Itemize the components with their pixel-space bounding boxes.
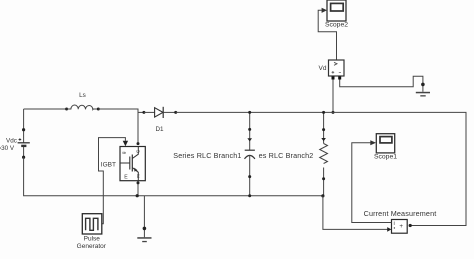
wire Vd plus terminal down to top rail bbox=[332, 80, 334, 113]
node diode anode port dot bbox=[142, 111, 145, 114]
node emitter bus junction bbox=[136, 194, 139, 197]
wire current measurement i output to Scope1 with arrow bbox=[352, 143, 392, 223]
ground G2 below bus bbox=[143, 196, 145, 238]
node Vd plus junction bbox=[332, 111, 335, 114]
svg-text:Scope1: Scope1 bbox=[374, 154, 397, 161]
svg-text:+: + bbox=[399, 223, 403, 230]
arrowhead into current measurement plus port bbox=[387, 227, 391, 232]
wire inductor to IGBT collector bbox=[98, 109, 138, 144]
wire battery top to inductor bbox=[24, 108, 67, 110]
node resistor top port dot bbox=[322, 128, 325, 131]
scope U-Scope2 bbox=[327, 0, 346, 21]
current measurement block bbox=[392, 220, 408, 234]
wire IGBT emitter to bus bbox=[137, 181, 139, 196]
svg-text:Vd: Vd bbox=[319, 65, 327, 72]
svg-text:g: g bbox=[121, 151, 126, 154]
wire top rail diode to right edge and down to current measurement bbox=[176, 112, 466, 225]
node inductor right port dot bbox=[97, 108, 100, 111]
svg-text:Ls: Ls bbox=[79, 92, 86, 99]
arrowhead into Scope1 input bbox=[370, 140, 376, 145]
node IGBT emitter port dot bbox=[137, 181, 140, 184]
svg-text:IGBT: IGBT bbox=[101, 161, 116, 168]
arrowhead into Scope2 input bbox=[322, 8, 327, 13]
ground G1 top right bbox=[416, 92, 430, 97]
node resistor bus junction bbox=[321, 194, 324, 197]
node ground port dot bbox=[421, 83, 425, 87]
wire pulse generator to gate bbox=[99, 138, 126, 224]
svg-text:es RLC Branch2: es RLC Branch2 bbox=[259, 151, 314, 160]
svg-text:Current Measurement: Current Measurement bbox=[364, 209, 437, 218]
svg-text:m: m bbox=[136, 174, 141, 178]
wire Vd output to Scope2 with arrow bbox=[318, 10, 336, 60]
node resistor bottom port dot bbox=[322, 177, 325, 180]
svg-text:Vdc: Vdc bbox=[6, 138, 17, 145]
svg-text:Series RLC Branch1: Series RLC Branch1 bbox=[173, 151, 241, 160]
node diode cathode port dot bbox=[174, 111, 177, 114]
svg-text:Pulse: Pulse bbox=[84, 235, 101, 242]
node IGBT collector dot bbox=[137, 142, 140, 145]
svg-text:=30 V: =30 V bbox=[0, 145, 15, 152]
svg-text:i: i bbox=[394, 221, 395, 227]
gate arrow into IGBT bbox=[123, 141, 128, 147]
wire tee to diode anode bbox=[138, 111, 144, 113]
node current measurement right port bbox=[409, 224, 412, 227]
pulse generator block bbox=[82, 214, 102, 234]
svg-text:E: E bbox=[124, 175, 128, 181]
svg-text:Generator: Generator bbox=[77, 243, 107, 250]
IGBT U1 block bbox=[120, 147, 145, 181]
node capacitor top port dot bbox=[248, 128, 251, 131]
wire Vd minus terminal to ground bbox=[340, 76, 423, 92]
node capacitor bus junction bbox=[248, 194, 251, 197]
wire resistor bottom to current measurement plus, with arrow bbox=[323, 196, 388, 230]
svg-text:D1: D1 bbox=[155, 126, 164, 133]
node capacitor bottom port dot bbox=[248, 175, 251, 178]
voltage measurement U-Vd bbox=[329, 60, 345, 80]
svg-text:Scope2: Scope2 bbox=[325, 22, 348, 29]
dc voltage source Vdc bbox=[18, 109, 30, 159]
wire battery bottom to ground bus bbox=[24, 157, 323, 196]
series RLC branch1 capacitor bbox=[249, 112, 251, 150]
series RLC branch2 resistor bbox=[323, 112, 325, 143]
scope U-Scope1 bbox=[376, 134, 394, 153]
node inductor left port dot bbox=[65, 108, 68, 111]
